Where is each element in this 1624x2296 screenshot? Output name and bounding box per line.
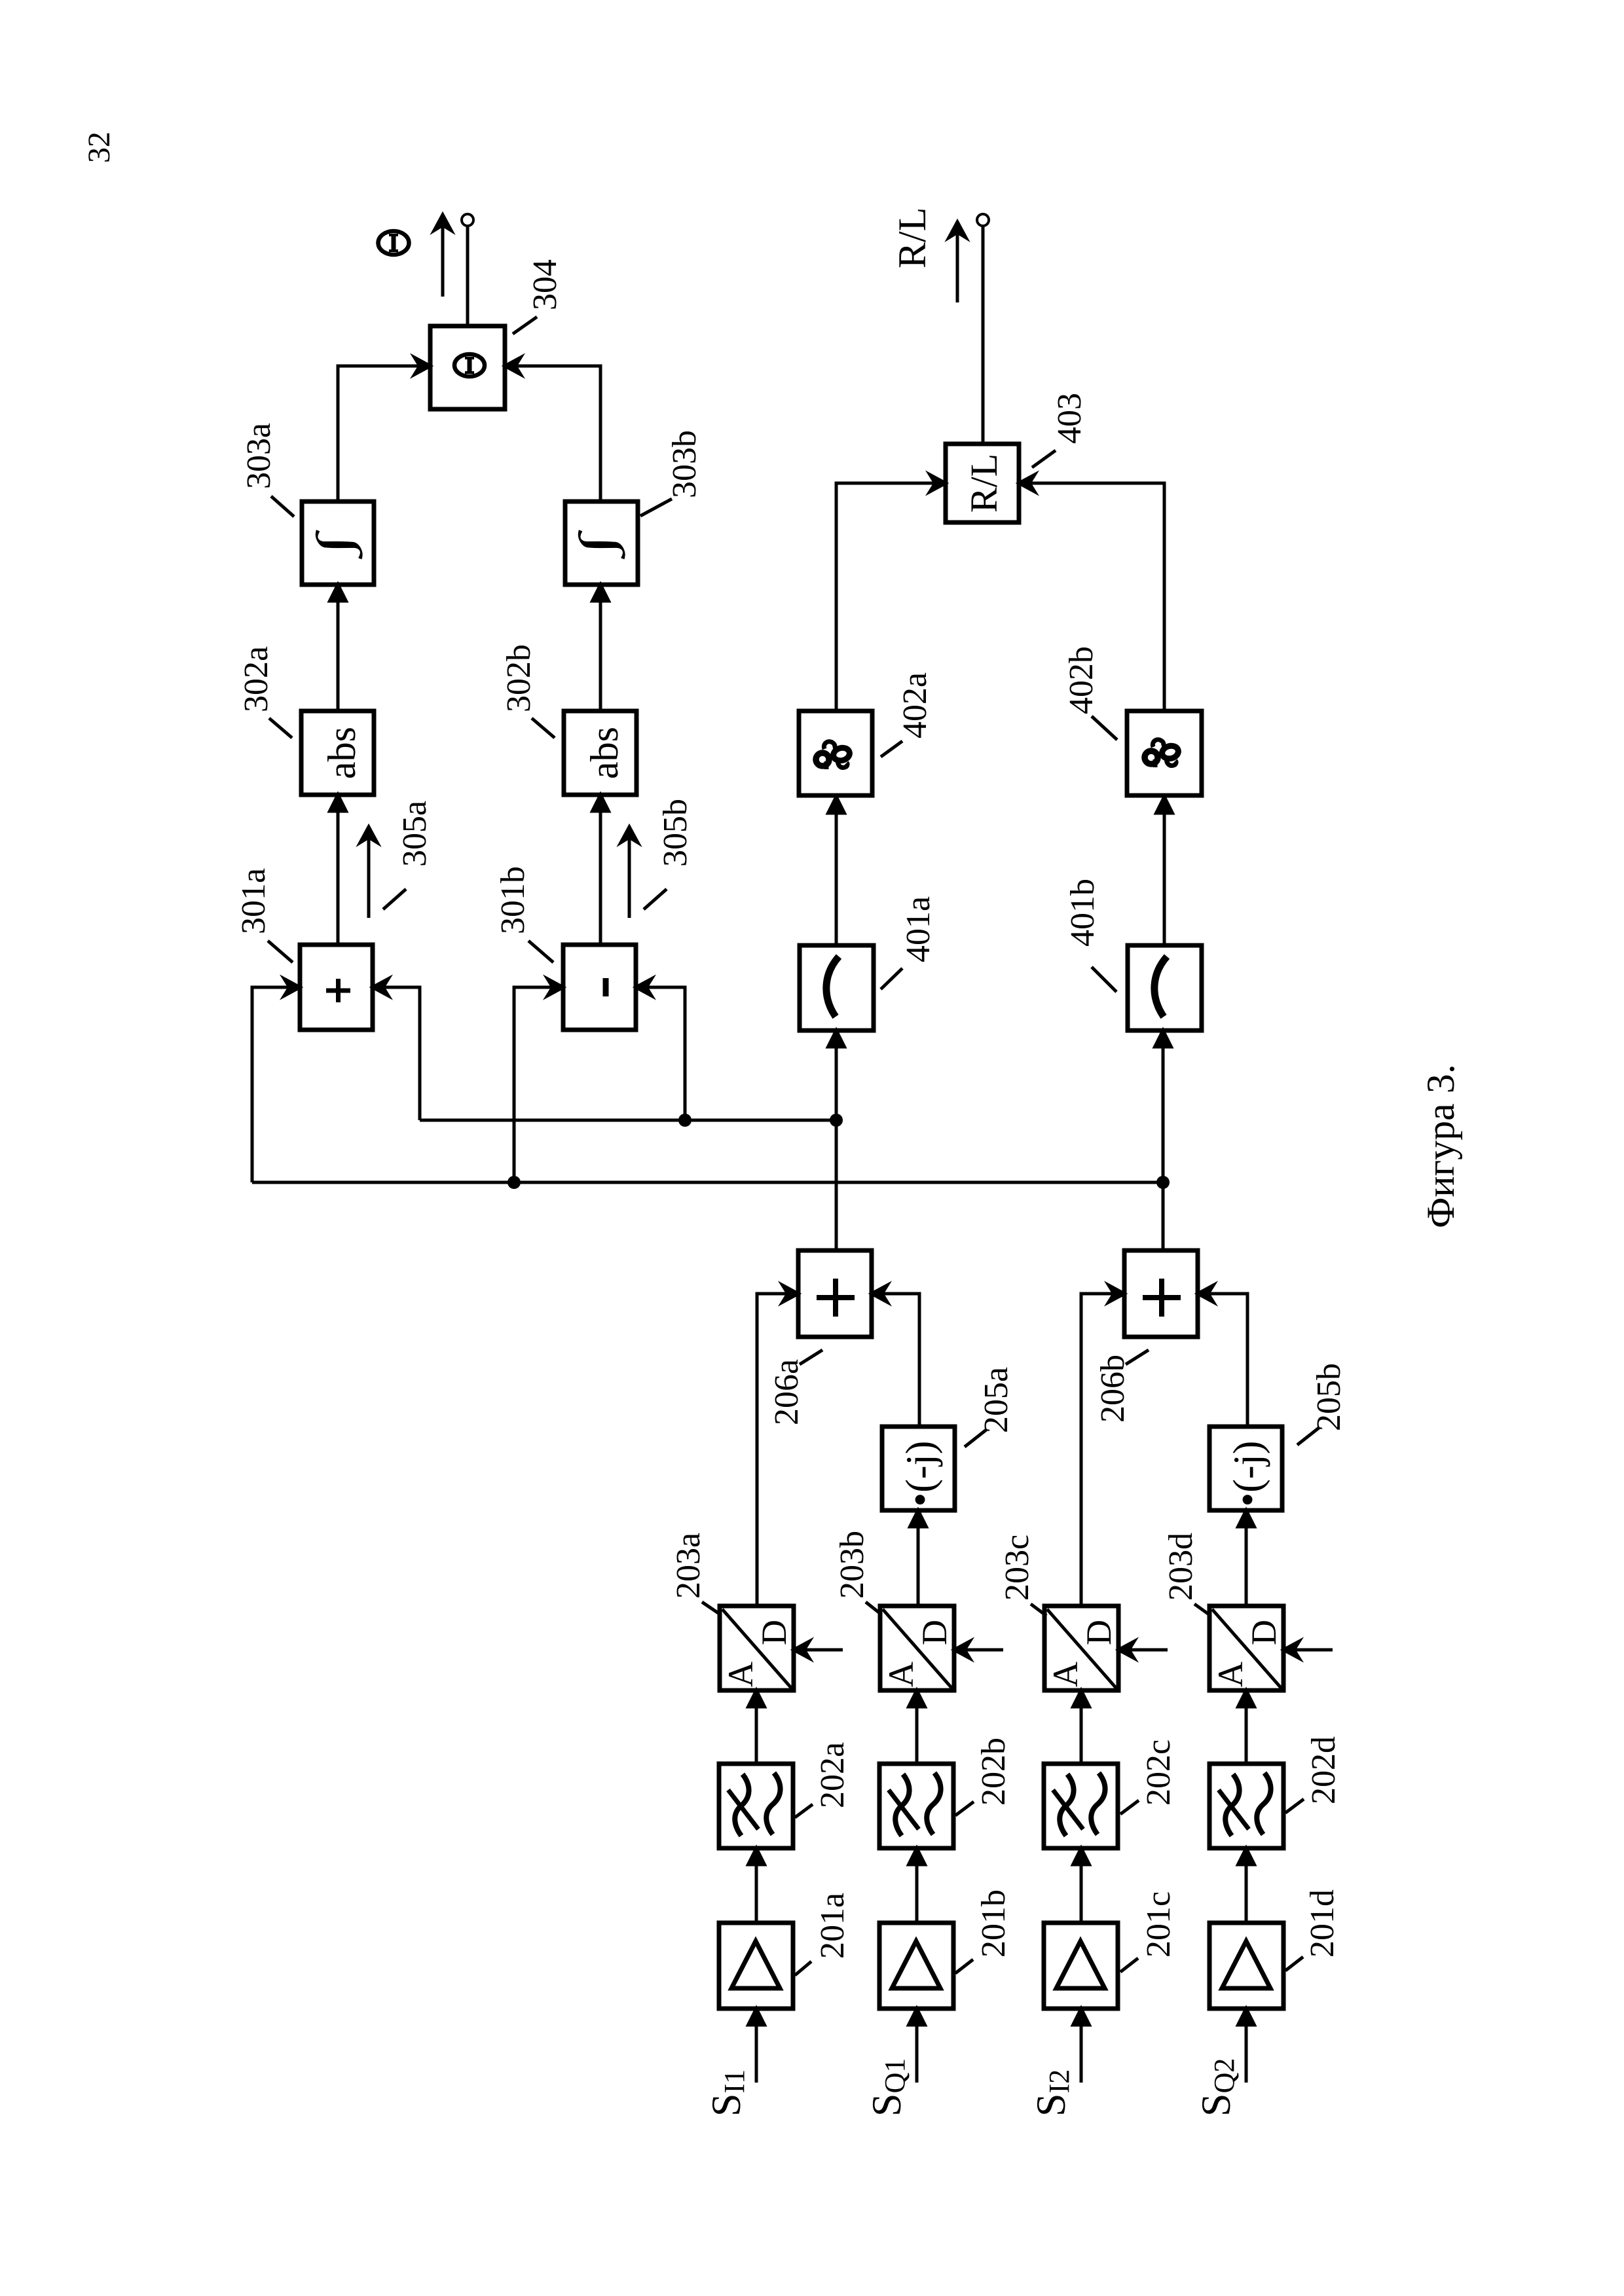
- bandpass filter 202c: [1044, 1764, 1118, 1848]
- signal arrow 305a: [360, 827, 377, 918]
- filter block 401a: [800, 945, 874, 1030]
- wire 401a to 402a: [828, 797, 845, 945]
- abs block 302b: [564, 711, 637, 795]
- bandpass filter 202b: [879, 1764, 953, 1848]
- wire 205a to 206a right input: [872, 1285, 919, 1427]
- ratio block 403: [946, 444, 1019, 522]
- junction dot bus2 at 206b vertical: [1156, 1176, 1170, 1189]
- clock arrow into 203b: [954, 1641, 1003, 1658]
- svg-text:305a: 305a: [396, 801, 434, 867]
- fourier block 402b: [1127, 711, 1202, 795]
- wire A/D 203c to 206b left input: [1081, 1285, 1124, 1606]
- label 203c: [999, 1535, 1046, 1616]
- wire 302b to 303b: [593, 585, 609, 711]
- svg-text:205b: 205b: [1310, 1363, 1348, 1431]
- svg-text:303a: 303a: [240, 423, 278, 489]
- input arrow SQ1: [909, 2009, 925, 2083]
- svg-text:•(-j): •(-j): [898, 1441, 943, 1507]
- theta output symbol: [378, 231, 409, 255]
- svg-text:201b: 201b: [975, 1889, 1012, 1958]
- svg-text:abs: abs: [320, 727, 363, 779]
- bandpass filter 202d: [1209, 1764, 1283, 1848]
- output arrow R/L: [949, 222, 966, 302]
- wire 301b right input from bus1: [636, 979, 685, 1120]
- signal arrow 305b: [621, 827, 638, 918]
- svg-text:202b: 202b: [975, 1738, 1012, 1806]
- label 302a: [238, 646, 292, 738]
- svg-text:202a: 202a: [814, 1742, 851, 1808]
- wire 402a to 403: [836, 475, 946, 711]
- label 304: [513, 259, 564, 334]
- svg-text:403: 403: [1051, 393, 1088, 444]
- label 201b: [955, 1889, 1012, 1973]
- label 305b: [644, 799, 694, 909]
- wire 301a to 302a: [330, 795, 346, 945]
- wire 403 output to terminal: [982, 226, 985, 444]
- svg-text:402a: 402a: [896, 672, 934, 738]
- svg-text:R/L: R/L: [891, 208, 934, 268]
- svg-text:D: D: [1244, 1620, 1283, 1645]
- svg-text:D: D: [1079, 1620, 1118, 1645]
- label 202c: [1120, 1740, 1177, 1814]
- svg-text:A: A: [881, 1662, 921, 1687]
- label 305a: [383, 801, 434, 909]
- label 303a: [240, 423, 294, 517]
- wire 206a output to 401a: [828, 1030, 845, 1250]
- svg-text:305b: 305b: [657, 799, 694, 867]
- amplifier 201b: [879, 1923, 953, 2009]
- adder block 206b: [1124, 1250, 1198, 1337]
- bandpass filter 202a: [719, 1764, 793, 1848]
- label 202a: [795, 1742, 851, 1817]
- wire 402b to 403: [1019, 475, 1164, 711]
- label 201c: [1120, 1891, 1177, 1972]
- A/D converter 203c: [1044, 1606, 1118, 1690]
- amplifier 201d: [1209, 1923, 1283, 2009]
- svg-text:D: D: [754, 1620, 794, 1645]
- output terminal theta: [462, 214, 473, 226]
- bus1 wire from 206a tap: [420, 1119, 836, 1122]
- wire amp 201c to 202c: [1073, 1848, 1090, 1923]
- wire 304 output to terminal: [466, 226, 470, 326]
- abs block 302a: [301, 711, 374, 795]
- label 402b: [1063, 646, 1117, 740]
- multiplier block 205a: [882, 1427, 955, 1510]
- label 206a: [768, 1350, 822, 1425]
- label 303b: [640, 430, 703, 516]
- label 202d: [1285, 1736, 1342, 1813]
- wire filter 202a to 203a: [748, 1690, 765, 1764]
- svg-text:203a: 203a: [670, 1533, 707, 1599]
- wire 303a to 304: [338, 357, 430, 501]
- wire 303b to 304: [505, 357, 600, 501]
- svg-text:301b: 301b: [494, 866, 532, 934]
- wire A/D 203d to 205b: [1238, 1510, 1255, 1606]
- svg-text:A: A: [1046, 1662, 1085, 1687]
- svg-text:A: A: [721, 1662, 760, 1687]
- bus2 wire from 206b tap: [252, 1181, 1163, 1184]
- wire A/D 203b to 205a: [910, 1510, 927, 1606]
- label 203a: [670, 1533, 720, 1614]
- wire A/D 203a to 206a left input: [757, 1285, 798, 1606]
- wire 301b left input from bus2: [514, 979, 563, 1182]
- clock arrow into 203d: [1283, 1641, 1333, 1658]
- svg-text:303b: 303b: [666, 430, 703, 498]
- svg-text:401b: 401b: [1064, 879, 1101, 947]
- label 201a: [795, 1893, 851, 1975]
- svg-text:402b: 402b: [1063, 646, 1100, 714]
- adder block 206a: [798, 1250, 872, 1337]
- amplifier 201c: [1044, 1923, 1118, 2009]
- theta block 304: [430, 326, 505, 409]
- svg-text:202c: 202c: [1140, 1740, 1177, 1806]
- junction dot bus2 at 301b feed: [507, 1176, 521, 1189]
- svg-text:304: 304: [526, 259, 564, 310]
- wire 301b to 302b: [593, 795, 609, 945]
- label 206b: [1094, 1350, 1149, 1423]
- fourier block 402a: [799, 711, 872, 795]
- wire 205b to 206b right input: [1198, 1285, 1247, 1427]
- integrator block 303a: [302, 501, 374, 585]
- label 205a: [965, 1367, 1015, 1447]
- junction dot bus1 at 301b feed: [678, 1114, 692, 1127]
- label 302b: [500, 644, 555, 738]
- input arrow SQ2: [1238, 2009, 1255, 2083]
- svg-text:Фигура 3.: Фигура 3.: [1419, 1064, 1462, 1228]
- junction dot bus1 at 206a vertical: [830, 1114, 843, 1127]
- wire amp 201a to 202a: [748, 1848, 765, 1923]
- wire filter 202b to 203b: [909, 1690, 925, 1764]
- svg-text:•(-j): •(-j): [1226, 1441, 1270, 1507]
- svg-text:203b: 203b: [834, 1531, 871, 1599]
- output terminal R/L: [977, 214, 989, 226]
- svg-text:abs: abs: [583, 727, 626, 779]
- label 401a: [881, 896, 937, 989]
- svg-text:302a: 302a: [238, 646, 275, 712]
- A/D converter 203b: [880, 1606, 954, 1690]
- amplifier 201a: [719, 1923, 793, 2009]
- label 202b: [955, 1738, 1012, 1815]
- svg-text:201c: 201c: [1140, 1891, 1177, 1958]
- svg-text:401a: 401a: [900, 896, 937, 962]
- adder block 301a: [300, 945, 373, 1030]
- A/D converter 203a: [720, 1606, 794, 1690]
- filter block 401b: [1128, 945, 1202, 1030]
- svg-text:R/L: R/L: [963, 454, 1005, 513]
- svg-text:32: 32: [82, 132, 117, 163]
- svg-text:203c: 203c: [999, 1535, 1036, 1601]
- svg-text:202d: 202d: [1305, 1736, 1342, 1804]
- label 205b: [1297, 1363, 1348, 1445]
- multiplier block 205b: [1209, 1427, 1282, 1510]
- subtractor block 301b: [563, 945, 636, 1030]
- clock arrow into 203a: [794, 1641, 843, 1658]
- label 203d: [1162, 1533, 1211, 1616]
- label 401b: [1064, 879, 1116, 992]
- wire amp 201d to 202d: [1238, 1848, 1255, 1923]
- svg-text:A: A: [1211, 1662, 1250, 1687]
- svg-text:D: D: [915, 1620, 954, 1645]
- A/D converter 203d: [1209, 1606, 1283, 1690]
- wire 302a to 303a: [330, 585, 346, 711]
- label 403: [1032, 393, 1088, 467]
- output arrow theta: [434, 215, 451, 297]
- wire 301a right input from bus1: [373, 979, 420, 1120]
- wire 206b output to 401b: [1155, 1030, 1172, 1250]
- label 201d: [1285, 1889, 1341, 1971]
- wire filter 202c to 203c: [1073, 1690, 1090, 1764]
- input arrow SI2: [1073, 2009, 1090, 2083]
- svg-text:301a: 301a: [235, 868, 272, 934]
- svg-text:201d: 201d: [1304, 1889, 1341, 1958]
- svg-text:201a: 201a: [814, 1893, 851, 1959]
- wire 301a left input from bus2: [252, 979, 300, 1182]
- svg-text:203d: 203d: [1162, 1533, 1200, 1601]
- label 301a: [235, 868, 293, 962]
- clock arrow into 203c: [1118, 1641, 1168, 1658]
- wire amp 201b to 202b: [909, 1848, 925, 1923]
- wire filter 202d to 203d: [1238, 1690, 1255, 1764]
- svg-text:206a: 206a: [768, 1359, 805, 1425]
- label 402a: [881, 672, 934, 757]
- wire 401b to 402b: [1156, 797, 1173, 945]
- label 301b: [494, 866, 553, 962]
- input arrow SI1: [748, 2009, 765, 2083]
- svg-text:205a: 205a: [978, 1367, 1015, 1433]
- integrator block 303b: [565, 501, 638, 585]
- label 203b: [834, 1531, 881, 1614]
- svg-text:302b: 302b: [500, 644, 538, 712]
